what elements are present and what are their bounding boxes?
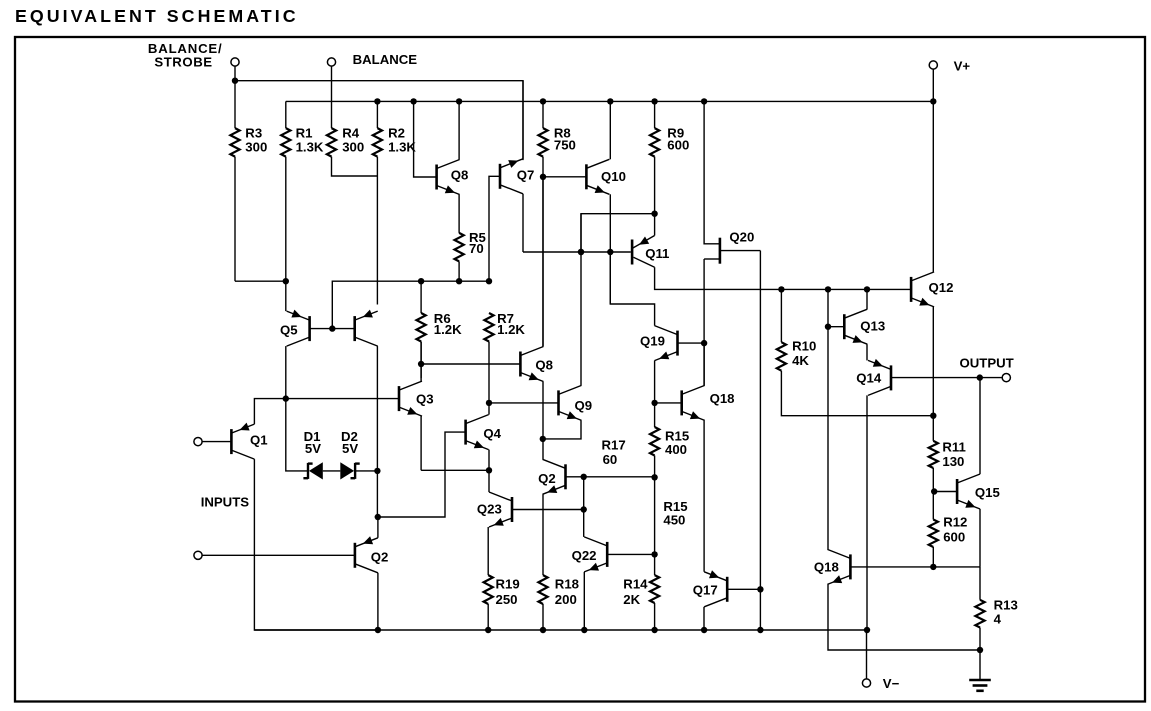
svg-text:BALANCE/: BALANCE/ [148,41,223,56]
wire Q8 emitter to R5 [458,195,460,233]
wire Q23 emitter down to R19 [487,527,489,575]
label R15 450b [663,513,685,528]
terminal V+ [929,61,937,69]
wire Q3e to Q4e link [421,469,489,471]
wire Q4 emitter down [488,450,490,471]
node Q9 collector tap Q11 base [578,249,584,255]
label R14 [623,576,648,591]
wire balance/strobe lead [234,66,236,81]
label Q10 [601,169,626,184]
resistor R9 600 [650,101,659,213]
svg-text:1.2K: 1.2K [434,322,462,337]
wire Q13 base [828,326,844,328]
resistor R18 200 [538,575,547,630]
transistor Q23 [489,492,512,527]
transistor Q14 [868,359,891,396]
resistor R3 300 [230,81,239,282]
svg-text:60: 60 [603,452,618,467]
label OUTPUT [960,355,1014,370]
svg-text:70: 70 [469,241,484,256]
label Q12 [929,280,954,295]
ground [969,650,991,691]
svg-text:Q18: Q18 [710,391,735,406]
wire Q5R collector down [376,346,378,471]
wire Q8b base [421,363,520,365]
terminal BALANCE [327,58,335,66]
wire Q18a emitter down [703,420,705,571]
wire Q3 emitter down [420,416,422,470]
label R13 value [994,612,1002,627]
wire R17 60 link [584,476,655,478]
svg-text:Q2: Q2 [538,471,556,486]
wire Q8b emitter down [542,382,544,439]
label Q1 [250,433,268,448]
label R15 400a [665,428,689,443]
resistor R19 250 [484,575,493,630]
wire D1-D2 link [323,470,341,472]
label R6 [434,311,451,326]
terminal OUTPUT [1002,374,1010,382]
wire Q17 base right [727,588,760,590]
node Q15 base node [931,488,937,494]
wire Q8b collector up [542,177,544,347]
node R10 top node [778,286,784,292]
node Q13 collector top [864,286,870,292]
node Q22 base node [651,551,657,557]
node R8 bottom [540,174,546,180]
wire Q11 emitter [654,214,656,236]
label Q18 first [710,391,735,406]
transistor Q11 [632,236,655,268]
resistor R10 4K [777,342,934,416]
svg-text:400: 400 [665,442,687,457]
label Q4 [483,426,501,441]
node Q13 column top [825,286,831,292]
label D1 value [305,441,321,456]
wire input2 to Q2a base [202,554,355,556]
node Q4 emitter node [486,467,492,473]
wire Q13 emitter to Q14 emitter [866,344,868,360]
label R1 value [296,140,324,155]
wire Q2b emitter down to R18 [542,494,544,575]
node R15 junction [651,474,657,480]
svg-text:OUTPUT: OUTPUT [960,355,1014,370]
svg-text:5V: 5V [342,441,358,456]
wire Q8be to Q2b collector [542,439,544,459]
node rail R14 [651,627,657,633]
diode D2 5V zener [340,462,359,479]
wire Q10 base [543,176,586,178]
svg-text:1.3K: 1.3K [388,140,416,155]
node Q11 base tap Q10emitter [607,249,613,255]
resistor R5 70 [455,233,464,281]
svg-text:R13: R13 [994,598,1018,613]
svg-text:750: 750 [554,137,576,152]
wire Q5L collector down [285,346,287,399]
node Q5 left emitter top [283,278,289,284]
node R13 bottom node [977,647,983,653]
label R10 [792,339,816,354]
wire main V+ bus [286,100,934,102]
svg-text:4: 4 [994,612,1002,627]
wire Q22 emitter down [583,572,585,630]
wire Q20 drain from bus [704,101,720,243]
node R9 bottom [651,211,657,217]
label R18 [555,576,579,591]
wire R8 node down to Q8 collector [542,177,544,347]
svg-text:130: 130 [942,454,964,469]
label R9 [667,125,684,140]
wire Q11 base row [523,251,631,253]
wire Q12 emitter down R11 chain [932,307,934,441]
svg-text:Q3: Q3 [416,392,434,407]
label R17 value [603,452,618,467]
wire Q15 collector up to output [979,378,981,474]
wire Q9 base [489,402,559,404]
transistor Q1 [231,423,254,460]
svg-text:Q2: Q2 [371,549,389,564]
svg-text:Q4: Q4 [483,426,501,441]
wire Q9 collector up [580,214,582,386]
svg-text:1.3K: 1.3K [296,140,324,155]
label R8 value [554,137,576,152]
transistor Q17 [704,570,727,607]
transistor Q10 [586,159,609,194]
wire R2col down to Q2a node [376,471,378,517]
resistor R8 750 [538,101,547,177]
svg-text:R10: R10 [792,339,816,354]
svg-text:Q8: Q8 [451,168,469,183]
transistor Q2 second [543,459,566,494]
node bus R9 [651,98,657,104]
wire output [891,377,1002,379]
label Q2 input [371,549,389,564]
wire Q13 base column [827,289,829,549]
transistor Q5 left [287,310,310,347]
label STROBE [154,55,212,70]
wire bottom rail [254,629,867,631]
node Q2a emitter junction [375,514,381,520]
label Q3 [416,392,434,407]
wire R15 450 segment [654,477,656,554]
svg-text:R4: R4 [342,125,360,140]
svg-text:Q9: Q9 [575,398,593,413]
svg-text:600: 600 [943,529,965,544]
wire Q20 gate down to Q17 base [759,251,761,590]
svg-text:V+: V+ [954,59,971,74]
node bus Q8 collector [456,98,462,104]
node Q19 base node [701,340,707,346]
svg-text:R2: R2 [388,125,405,140]
label Q8 [451,168,469,183]
transistor Q20 jfet [704,238,760,264]
wire Q1 emitter up / Q3 base row [254,399,399,425]
svg-text:Q8: Q8 [535,357,553,372]
label R1 [296,125,313,140]
resistor R12 600 [929,492,938,567]
label Q22 [572,548,597,563]
wire R9 bottom link [581,214,655,252]
svg-text:Q13: Q13 [860,319,885,334]
wire R10 top [780,289,782,342]
label Q13 [860,319,885,334]
label R6 value [434,322,462,337]
label R12 value [943,529,965,544]
transistor Q5 right [355,310,378,347]
svg-text:Q22: Q22 [572,548,597,563]
transistor Q9 [559,385,582,420]
node bus Q8 base [410,98,416,104]
svg-text:Q20: Q20 [729,230,754,245]
svg-text:Q10: Q10 [601,169,626,184]
svg-text:R3: R3 [245,125,262,140]
wire Q19 base right [678,342,705,344]
label D2 value [342,441,358,456]
label R5 [469,230,486,245]
label R4 [342,125,360,140]
svg-text:4K: 4K [792,353,809,368]
wire Q20 source down [703,259,705,385]
transistor Q2 input [355,536,378,573]
svg-text:STROBE: STROBE [154,55,212,70]
node bus Q20 drain [701,98,707,104]
resistor R14 2K [650,554,659,630]
node rail R19 [485,627,491,633]
label Q18 second [814,560,839,575]
label R19 value [496,592,518,607]
wire Q12 collector up [932,101,934,272]
node rail Q22e [581,627,587,633]
resistor R4 300 [327,128,378,176]
svg-text:2K: 2K [623,592,640,607]
label R7 [497,311,514,326]
svg-text:INPUTS: INPUTS [201,495,250,510]
wire Q19 emitter down [654,361,656,403]
terminal input 2 [194,551,202,559]
transistor Q22 [584,537,607,572]
svg-text:R14: R14 [623,576,648,591]
svg-text:R18: R18 [555,576,579,591]
svg-text:5V: 5V [305,441,321,456]
wire V+ lead [932,69,934,101]
wire Q8 base line [414,101,437,177]
label Q9 [575,398,593,413]
node R11 top node [930,413,936,419]
label Q17 [693,583,718,598]
wire Q8 collector [458,101,460,159]
wire Q18b base right [850,566,980,568]
transistor Q4 [466,415,489,450]
svg-text:Q19: Q19 [640,334,665,349]
label Q20 [729,230,754,245]
svg-text:BALANCE: BALANCE [353,52,418,67]
node Q5 base [329,325,335,331]
wire Q7 base [489,176,500,281]
resistor R6 1.2K [417,281,426,378]
resistor R7 1.2K [484,313,493,403]
label Q15 [975,485,1000,500]
svg-text:R11: R11 [942,439,965,454]
svg-text:450: 450 [663,513,685,528]
label Q19 [640,334,665,349]
node base row R5 [456,278,462,284]
wire Q2a collector down [377,573,379,630]
label Q11 [645,246,669,261]
label R18 value [555,592,577,607]
node balance/strobe junction [232,78,238,84]
svg-text:V−: V− [883,676,900,691]
label R13 [994,598,1018,613]
wire Q18b emitter route [828,584,980,650]
wire Q13 collector up [866,289,868,309]
node Q17 base node [757,586,763,592]
wire Q2b-base down to Q22 collector [583,477,585,537]
node bus R8 [540,98,546,104]
terminal input 1 [194,438,202,446]
svg-text:1.2K: 1.2K [497,322,525,337]
wire Q5 base bar [310,328,355,330]
wire Q10 collector [609,101,611,159]
label D2 [341,429,358,444]
label V+ [954,59,971,74]
wire Q23 base right [512,509,584,511]
svg-text:Q5: Q5 [280,323,298,338]
wire Q18a collector up [703,343,705,385]
label R4 value [342,140,364,155]
node rail Q2a [375,627,381,633]
label D1 [304,429,321,444]
wire Q15 base [933,491,957,493]
wire Q22 base right [607,553,654,555]
svg-text:Q7: Q7 [517,168,535,183]
label R11 [942,439,965,454]
wire R1 to Q5L emitter [285,281,287,311]
wire balance/strobe bus [235,81,523,160]
svg-text:Q15: Q15 [975,485,1000,500]
node Q2b base node [581,474,587,480]
wire Q18a base [655,402,682,404]
label R7 value [497,322,525,337]
wire Q7 emitter up [522,81,524,159]
node rail Q17c [701,627,707,633]
node bus Q10 collector [607,98,613,104]
wire Q17 gate-line to rail [759,589,761,630]
node bus R2 [374,98,380,104]
label R19 [496,576,520,591]
wire Q5 base up and right [332,281,489,328]
label R15 400b [665,442,687,457]
resistor R13 4 [975,567,984,650]
svg-text:300: 300 [342,140,364,155]
wire Q1 collector down to rail [254,459,378,630]
wire input1 to Q1 [202,441,231,443]
label INPUTS [201,495,250,510]
transistor Q7 [500,159,523,194]
node R6 Q8b base tap [418,361,424,367]
wire D1 left lead [286,399,308,471]
svg-text:Q17: Q17 [693,583,718,598]
node bus V+ [930,98,936,104]
resistor R11 130 [929,441,938,492]
svg-text:Q11: Q11 [645,246,669,261]
svg-text:Q14: Q14 [856,371,882,386]
label Q14 [856,371,882,386]
node rail R18 [540,627,546,633]
svg-text:Q23: Q23 [477,502,502,517]
label Q23 [477,502,502,517]
node V- rail node [864,627,870,633]
label R15 450a [663,499,687,514]
node Q8b emitter node [540,436,546,442]
svg-text:R19: R19 [496,576,520,591]
label R17 [602,437,626,452]
node Q3 base row D1 tap [283,395,289,401]
wire Dj to Q4 base [378,432,466,517]
wire Q17 collector down [703,607,705,630]
node R12 bottom node [930,564,936,570]
transistor Q18 second [827,549,850,584]
node Q9 base node [486,400,492,406]
label R8 [554,125,571,140]
wire Q11 collector to Q12 base [655,267,912,289]
node Q13 base node [825,324,831,330]
svg-text:Q18: Q18 [814,560,839,575]
label R11 value [942,454,964,469]
svg-text:R17: R17 [602,437,626,452]
transistor Q18 first [682,385,705,420]
label Q8 second [535,357,553,372]
label R14 value [623,592,640,607]
label V- [883,676,900,691]
svg-text:600: 600 [667,137,689,152]
title EQUIVALENT SCHEMATIC [15,6,299,27]
transistor Q13 [844,309,867,344]
transistor Q3 [399,381,422,416]
wire Q14 collector down to V- [866,395,868,630]
wire balance lead to R4 [331,66,333,128]
svg-text:Q12: Q12 [929,280,954,295]
wire Q2a emitter up [377,517,379,538]
node D2 junction [374,468,380,474]
diode D1 5V zener [303,462,322,479]
wire R3 bottom to R1 [235,280,286,282]
label R12 [943,515,967,530]
label BALANCE/ [148,41,223,56]
wire Q4e down to Q23 collector [488,470,490,492]
label R3 [245,125,262,140]
svg-text:300: 300 [245,140,267,155]
label R5 value [469,241,484,256]
svg-text:200: 200 [555,592,577,607]
wire Q4 collector up [488,403,490,415]
terminal V- [862,679,870,687]
node output node [977,374,983,380]
wire D2 to R2 column [355,470,377,472]
transistor Q12 [911,272,934,307]
node base row R7 [486,278,492,284]
wire Q10emitter to Q19 collector [610,252,654,326]
resistor R2 1.3K [373,101,382,304]
transistor Q8 second [520,347,543,382]
wire Q3 collector [420,342,422,382]
transistor Q19 [655,326,678,361]
svg-text:Q1: Q1 [250,433,268,448]
resistor R1 1.3K [281,101,290,281]
node R15 top node [651,400,657,406]
label R10 value [792,353,809,368]
wire Q10 emitter down [609,194,611,304]
wire Q2b base right [566,476,584,478]
